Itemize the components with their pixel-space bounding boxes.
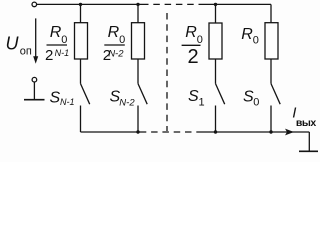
label S(N-2): [110, 89, 136, 109]
voltage arrow Uop (line): [35, 18, 37, 57]
label R0/2^(N-1) value: [45, 24, 69, 64]
wire top bus solid left segment: [37, 3, 149, 5]
output current arrow head Ivyh: [285, 129, 294, 136]
svg-text:S: S: [50, 90, 61, 107]
node junction dot top at R(N-1): [79, 3, 82, 6]
wire bus corner to resistor R0: [270, 4, 272, 22]
svg-text:N-2: N-2: [108, 49, 124, 60]
wire resistor R(N-1) to switch S(N-1): [80, 59, 82, 84]
wire switch S1 to bottom bus: [215, 106, 217, 133]
resistor R0/2: [209, 23, 222, 59]
wire bus to resistor R(N-1): [80, 4, 82, 22]
wire switch S(N-1) to bottom bus: [80, 106, 82, 133]
svg-text:0: 0: [61, 34, 67, 46]
resistor R0/2^(N-1): [75, 23, 88, 59]
label R0 value: [241, 26, 259, 46]
node junction dot bottom at S(N-2): [136, 130, 139, 133]
wire bus to resistor R(N-2): [137, 4, 139, 22]
svg-text:0: 0: [253, 97, 259, 109]
wire top bus solid right segment: [205, 3, 271, 5]
terminal top-left (Uref + input): [32, 2, 37, 7]
svg-text:R: R: [50, 24, 62, 41]
switch S1 blade: [216, 84, 225, 105]
wire bottom bus dashed middle segment: [146, 131, 200, 133]
wire switch S0 to bottom bus: [270, 106, 272, 133]
wire to right ground: [308, 132, 310, 151]
svg-text:0: 0: [253, 34, 259, 46]
svg-text:0: 0: [119, 34, 125, 46]
svg-text:R: R: [108, 24, 120, 41]
resistor R0/2^(N-2): [132, 23, 145, 59]
node junction dot bottom at S0: [269, 130, 272, 133]
svg-text:S: S: [188, 88, 199, 105]
ground left: [24, 99, 45, 101]
label S1: [188, 88, 205, 109]
svg-text:1: 1: [199, 97, 205, 109]
label S0: [243, 89, 259, 109]
wire bottom bus solid left segment: [81, 131, 147, 133]
label Uop: [6, 34, 32, 58]
wire terminal to left ground: [33, 82, 35, 100]
wire resistor R1 to switch S1: [215, 59, 217, 84]
svg-text:2: 2: [188, 46, 199, 68]
svg-text:вых: вых: [296, 117, 316, 129]
svg-text:R: R: [185, 24, 197, 41]
wire top bus dashed middle segment: [149, 3, 206, 5]
voltage arrow Uop (head): [33, 56, 38, 64]
resistor R0: [265, 23, 278, 59]
node junction dot top at R(N-2): [136, 3, 139, 6]
wire bottom bus solid right segment: [200, 131, 309, 133]
node junction dot top at R1: [214, 3, 217, 6]
svg-text:R: R: [241, 26, 253, 43]
label R0/2 value: [182, 24, 203, 68]
switch S(N-2) blade: [138, 84, 147, 105]
wire resistor R0 to switch S0: [270, 59, 272, 84]
svg-text:0: 0: [197, 34, 203, 46]
svg-text:2: 2: [45, 47, 53, 64]
label S(N-1): [50, 90, 75, 108]
dashed break line (omitted stages): [166, 13, 168, 131]
ground right: [299, 150, 318, 152]
switch S(N-1) blade: [81, 84, 90, 105]
terminal bottom-left (ground side): [32, 77, 37, 82]
wire resistor R(N-2) to switch S(N-2): [137, 59, 139, 84]
switch S0 blade: [271, 84, 280, 105]
svg-text:оп: оп: [20, 45, 32, 57]
wire switch S(N-2) to bottom bus: [137, 106, 139, 133]
wire bus to resistor R1: [215, 4, 217, 23]
label R0/2^(N-2) value: [103, 24, 125, 64]
svg-text:N-1: N-1: [55, 48, 70, 58]
svg-text:N-1: N-1: [60, 97, 75, 107]
node junction dot bottom at S1: [214, 130, 217, 133]
label Ivyh: [292, 105, 316, 129]
svg-text:U: U: [6, 34, 20, 54]
svg-text:N-2: N-2: [119, 98, 135, 109]
